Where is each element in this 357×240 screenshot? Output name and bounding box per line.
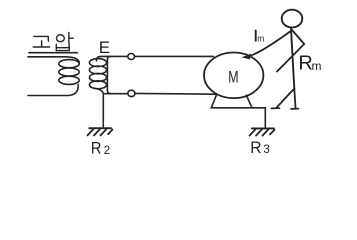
svg-text:R: R — [91, 138, 102, 157]
svg-text:R: R — [250, 138, 261, 157]
svg-text:m: m — [312, 59, 322, 73]
svg-text:E: E — [99, 38, 110, 57]
svg-text:2: 2 — [104, 145, 110, 157]
svg-text:m: m — [257, 33, 264, 44]
svg-text:M: M — [228, 68, 238, 86]
svg-text:3: 3 — [263, 144, 269, 156]
